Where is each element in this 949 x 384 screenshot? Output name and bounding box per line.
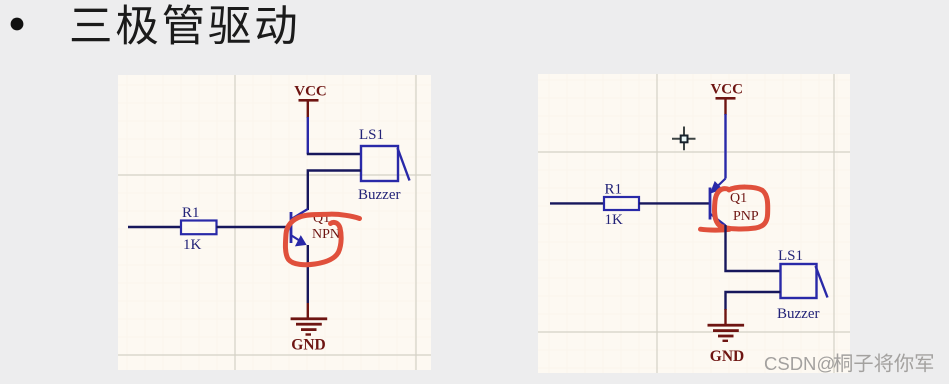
svg-text:R1: R1	[605, 182, 623, 198]
svg-text:Buzzer: Buzzer	[777, 306, 819, 322]
wire input to R1 (right)	[550, 202, 604, 204]
transistor Q1 NPN	[291, 209, 308, 246]
svg-text:@: @	[817, 353, 836, 374]
ground symbol GND (right)	[708, 324, 745, 342]
svg-text:VCC: VCC	[710, 82, 743, 98]
left schematic panel	[118, 75, 431, 370]
svg-text:NPN: NPN	[312, 227, 340, 242]
wire Q1 emitter to GND	[307, 245, 309, 303]
wire VCC to LS1 pin 1	[307, 117, 309, 154]
wire R1 to Q1 base	[217, 226, 291, 228]
wire VCC to Q1 emitter (right)	[724, 114, 726, 179]
right schematic panel	[538, 74, 850, 373]
svg-text:GND: GND	[710, 348, 744, 365]
power symbol VCC (right)	[716, 97, 736, 115]
svg-text:R1: R1	[182, 205, 200, 221]
svg-text:Buzzer: Buzzer	[358, 187, 400, 203]
transistor Q1 PNP	[710, 179, 726, 226]
wire LS1 pin 2 to Q1 collector	[308, 171, 361, 211]
svg-text:1K: 1K	[605, 212, 624, 228]
svg-text:VCC: VCC	[294, 84, 327, 100]
wire LS1 pin2 to GND (right)	[726, 292, 781, 310]
wire Q1 collector to LS1 pin1 (right)	[726, 225, 781, 271]
svg-text:GND: GND	[291, 337, 325, 354]
power symbol VCC (left)	[299, 99, 319, 118]
speaker LS1 (right)	[781, 264, 828, 298]
wire input to R1 (left)	[128, 226, 181, 228]
svg-text:LS1: LS1	[359, 127, 384, 143]
svg-text:CSDN: CSDN	[764, 353, 816, 374]
svg-text:Q1: Q1	[730, 191, 747, 206]
red annotation circle around Q1 (right)	[701, 187, 768, 230]
svg-text:LS1: LS1	[778, 248, 803, 264]
resistor R1 (right)	[604, 197, 639, 210]
slide title 三极管驱动	[72, 4, 295, 44]
svg-text:PNP: PNP	[733, 209, 759, 224]
ground symbol GND (left)	[291, 317, 328, 335]
wire R1 to Q1 base (right)	[639, 202, 709, 204]
resistor R1 (left)	[181, 221, 217, 235]
svg-text:1K: 1K	[183, 237, 202, 253]
cursor crosshair	[672, 127, 696, 151]
watermark CSDN @桐子将你军	[764, 353, 933, 374]
speaker LS1 (left)	[361, 146, 410, 181]
title bullet	[11, 18, 24, 31]
red annotation circle around Q1 (left)	[285, 214, 359, 265]
